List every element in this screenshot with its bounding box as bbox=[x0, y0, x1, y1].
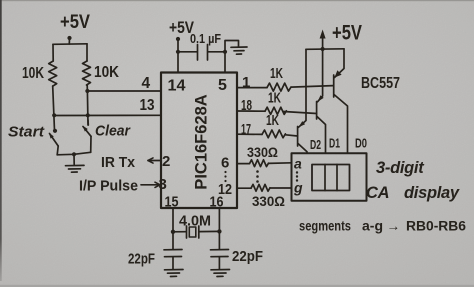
svg-text:D1: D1 bbox=[329, 136, 340, 151]
wire pin 3 input pulse arrow bbox=[141, 182, 160, 187]
svg-text:17: 17 bbox=[241, 121, 251, 138]
svg-text:10K: 10K bbox=[94, 64, 120, 81]
switch S1 Start (pushbutton) bbox=[49, 129, 58, 155]
node junction R2 / pin4 wire bbox=[85, 89, 89, 93]
display pin g label bbox=[293, 180, 303, 196]
switch S2 Clear (pushbutton) bbox=[83, 120, 92, 152]
pin number 1 bbox=[242, 74, 250, 91]
value label 10K (R2) bbox=[94, 64, 120, 81]
node junction on pin13 wire (right) bbox=[86, 113, 90, 117]
pin number 4 bbox=[142, 75, 151, 92]
svg-text:I/P Pulse: I/P Pulse bbox=[79, 179, 138, 195]
wire R1 bottom lead to Start switch bbox=[53, 86, 55, 131]
resistor R3 1K bbox=[267, 83, 291, 91]
value label 10K (R1) bbox=[22, 65, 45, 82]
svg-text:PIC16F628A: PIC16F628A bbox=[193, 94, 211, 189]
pin number 16 bbox=[210, 194, 224, 211]
wire pin 16 to crystal bbox=[218, 208, 220, 231]
wire switch commons to ground bbox=[57, 152, 90, 155]
svg-text:1K: 1K bbox=[268, 91, 281, 107]
wire pin 6 to R6 bbox=[237, 163, 250, 165]
wire R2 bottom lead bbox=[86, 85, 88, 91]
pin number 18 bbox=[241, 97, 252, 114]
svg-text:IR Tx: IR Tx bbox=[101, 155, 135, 171]
value label 1K (R4) bbox=[268, 91, 281, 107]
svg-text:CAdisplay: CAdisplay bbox=[366, 184, 460, 202]
pin number 15 bbox=[165, 194, 179, 211]
wire +5V to pin 14 (VDD) bbox=[177, 39, 179, 73]
value label 330R (R6) bbox=[247, 144, 278, 160]
svg-text:5: 5 bbox=[218, 77, 227, 94]
wire pin 17 to R5 bbox=[237, 133, 262, 135]
wire pin 2 IR Tx output arrow bbox=[148, 158, 161, 163]
wire pin 13 to IC bbox=[54, 114, 161, 116]
wire pin 4 to IC bbox=[87, 90, 161, 92]
transistor Q1 BC557 (digit D0 driver) bbox=[334, 49, 348, 153]
ground (C2) bbox=[165, 270, 184, 277]
wire pin 1 to R3 bbox=[237, 87, 267, 89]
value label 1K (R5) bbox=[266, 113, 279, 129]
node +5V left stem dot bbox=[67, 36, 71, 40]
node D1 digit label bbox=[329, 136, 340, 151]
ground (C3) bbox=[211, 270, 230, 277]
node +5V middle stem dot bbox=[176, 37, 180, 41]
node rail junction bbox=[321, 47, 325, 51]
node D0 digit label bbox=[355, 136, 367, 151]
svg-text:D2: D2 bbox=[310, 137, 321, 152]
wire R1 top lead bbox=[52, 44, 54, 61]
pin number 12 bbox=[218, 181, 232, 198]
wire +5V stem to pullup tee bbox=[68, 38, 70, 44]
svg-text:g: g bbox=[293, 180, 303, 196]
pin number 14 bbox=[168, 78, 186, 95]
pin number 17 bbox=[241, 121, 251, 138]
svg-text:4: 4 bbox=[142, 75, 151, 92]
wire R6 to display pin a bbox=[269, 162, 292, 165]
svg-text:3-digit: 3-digit bbox=[376, 159, 425, 177]
IC U1 PIC16F628A body bbox=[161, 73, 237, 209]
svg-text:10K: 10K bbox=[22, 65, 45, 82]
U1 part label PIC16F628A (rotated) bbox=[193, 94, 211, 189]
svg-text:a: a bbox=[294, 156, 302, 172]
svg-text:Start: Start bbox=[8, 124, 45, 141]
net +5V label (left supply) bbox=[60, 12, 90, 33]
ellipsis pins 6..12 bbox=[224, 171, 226, 182]
pin number 6 bbox=[221, 155, 229, 172]
svg-text:+5V: +5V bbox=[332, 22, 362, 45]
ground (switch common) bbox=[66, 154, 85, 172]
node crystal left junction bbox=[171, 230, 175, 234]
value label 330R (R7) bbox=[252, 193, 285, 209]
value label 22pF (C2) bbox=[128, 252, 155, 268]
ellipsis segment resistors bbox=[256, 170, 259, 183]
label IR Tx bbox=[101, 155, 135, 171]
ground (top, VSS) bbox=[231, 47, 247, 54]
wire pin 18 to R4 bbox=[237, 110, 265, 112]
svg-text:D0: D0 bbox=[355, 136, 367, 151]
label I/P Pulse bbox=[79, 179, 138, 195]
svg-text:segmentsa-g→RB0-RB6: segmentsa-g→RB0-RB6 bbox=[299, 219, 466, 234]
wire R4 to Q2 base bbox=[284, 112, 317, 114]
wire R3 to Q1 base bbox=[291, 86, 333, 88]
svg-text:Clear: Clear bbox=[95, 123, 131, 140]
display pin a label bbox=[294, 156, 302, 172]
svg-text:15: 15 bbox=[165, 194, 179, 211]
crystal X1 4.0MHz bbox=[173, 226, 219, 238]
pin number 5 bbox=[218, 77, 227, 94]
node VSS / C1 junction bbox=[223, 50, 227, 54]
label Start bbox=[8, 124, 45, 141]
capacitor C2 22pF (left) bbox=[164, 232, 182, 269]
wire R5 to Q3 base bbox=[286, 135, 298, 136]
svg-text:22pF: 22pF bbox=[232, 249, 263, 265]
svg-text:0.1 µF: 0.1 µF bbox=[190, 32, 221, 46]
net +5V label (middle supply) bbox=[169, 19, 194, 37]
capacitor C3 22pF (right) bbox=[211, 231, 229, 268]
node ground junction bbox=[72, 152, 76, 156]
svg-text:1K: 1K bbox=[270, 66, 283, 82]
resistor R4 1K bbox=[265, 107, 286, 114]
resistor R1 10K (left pullup) bbox=[49, 61, 57, 86]
value label 22pF (C3) bbox=[232, 249, 263, 265]
resistor R7 330R (segment g) bbox=[251, 184, 270, 191]
node crystal right junction bbox=[217, 229, 221, 233]
node D2 digit label bbox=[310, 137, 321, 152]
transistor Q2 BC557 (digit D1 driver) bbox=[317, 49, 326, 153]
wire C1 to pin 5 (VSS) bbox=[224, 52, 226, 73]
svg-text:14: 14 bbox=[168, 78, 186, 95]
net +5V label (right supply) bbox=[332, 22, 362, 45]
wire VSS to top ground bbox=[225, 41, 239, 52]
pin number 13 bbox=[140, 97, 155, 114]
svg-text:330Ω: 330Ω bbox=[247, 144, 278, 160]
display DS1 module outline bbox=[292, 153, 367, 201]
label Clear bbox=[95, 123, 131, 140]
pin number 3 bbox=[159, 176, 167, 193]
display DS1 digit window bbox=[312, 165, 350, 191]
annotation segments a-g to RB0-RB6 bbox=[299, 219, 466, 234]
value label 4.0M (X1) bbox=[179, 214, 211, 230]
annotation 3-digit CA display bbox=[366, 159, 460, 202]
svg-text:6: 6 bbox=[221, 155, 229, 172]
pin number 2 bbox=[162, 153, 170, 170]
part label BC557 bbox=[361, 75, 400, 92]
wire pin 15 to crystal bbox=[172, 208, 174, 232]
resistor R5 1K bbox=[262, 130, 285, 138]
svg-text:13: 13 bbox=[140, 97, 155, 114]
svg-text:BC557: BC557 bbox=[361, 75, 400, 92]
wire R7 to display pin g bbox=[270, 187, 292, 189]
capacitor C1 0.1uF bbox=[178, 45, 225, 61]
value label 0.1uF (C1) bbox=[190, 32, 221, 46]
resistor R2 10K (right pullup) bbox=[83, 61, 91, 85]
node VDD / C1 junction bbox=[176, 50, 180, 54]
ellipsis display pins a..g bbox=[296, 171, 298, 181]
wire emitter supply rail bbox=[306, 48, 344, 51]
svg-text:1K: 1K bbox=[266, 113, 279, 129]
wire R2 top lead bbox=[86, 44, 88, 61]
svg-text:12: 12 bbox=[218, 181, 232, 198]
resistor R6 330R (segment a) bbox=[250, 160, 269, 167]
wire +5V up arrow bbox=[320, 30, 326, 50]
wire pullup tee horizontal bbox=[53, 43, 87, 46]
svg-text:330Ω: 330Ω bbox=[252, 193, 285, 209]
wire down to Clear switch bbox=[86, 91, 89, 125]
svg-text:2: 2 bbox=[162, 153, 170, 170]
svg-text:+5V: +5V bbox=[60, 12, 90, 33]
svg-text:22pF: 22pF bbox=[128, 252, 155, 268]
value label 1K (R3) bbox=[270, 66, 283, 82]
node junction on pin13 wire (left) bbox=[52, 113, 56, 117]
transistor Q3 BC557 (digit D2 driver) bbox=[298, 49, 307, 153]
wire pin 12 to R7 bbox=[237, 187, 251, 189]
